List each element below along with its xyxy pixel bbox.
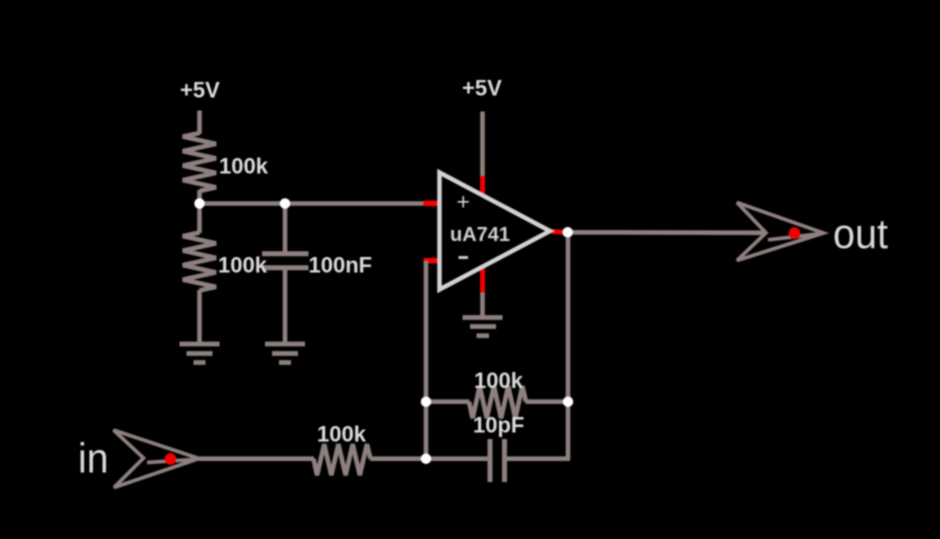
red stub inverting input bbox=[424, 258, 442, 264]
label in bbox=[78, 435, 109, 482]
label R3 100k bbox=[317, 421, 367, 446]
wire op-amp V- to ground bbox=[480, 293, 485, 318]
ground G1 bbox=[180, 344, 220, 363]
node feedback left bbox=[421, 396, 432, 407]
label +5V op-amp bbox=[462, 76, 502, 101]
label op-amp plus bbox=[457, 189, 470, 215]
ground G3 bbox=[463, 318, 503, 336]
red dot in bbox=[165, 453, 177, 465]
red stub output bbox=[552, 229, 565, 235]
label out bbox=[833, 210, 888, 257]
wire V+ rail to R1 top bbox=[197, 111, 202, 135]
label op-amp uA741 bbox=[450, 224, 510, 246]
svg-text:in: in bbox=[78, 435, 109, 482]
wire output node to out arrow bbox=[568, 230, 766, 235]
svg-text:100k: 100k bbox=[218, 252, 268, 277]
wire output node down to feedback bbox=[566, 232, 571, 458]
node feedback right bbox=[563, 396, 574, 407]
svg-text:100nF: 100nF bbox=[309, 252, 373, 277]
node input junction bbox=[421, 453, 432, 464]
resistor R3 100k (input) bbox=[314, 444, 427, 475]
wire bias node row bbox=[200, 201, 425, 206]
svg-text:100k: 100k bbox=[474, 368, 524, 393]
node bias left bbox=[194, 198, 205, 209]
node output bbox=[562, 227, 573, 238]
wire inverting input down to feedback bbox=[424, 261, 429, 459]
node bias cap bbox=[280, 198, 291, 209]
svg-text:out: out bbox=[833, 210, 888, 257]
capacitor C1 100nF bbox=[262, 204, 309, 344]
input arrow flag "in" bbox=[114, 430, 200, 488]
red dot out bbox=[789, 227, 801, 239]
svg-text:+5V: +5V bbox=[462, 76, 502, 101]
label C1 100nF bbox=[309, 252, 373, 277]
label R4 100k bbox=[474, 368, 524, 393]
red stub non-inverting input bbox=[424, 201, 442, 207]
ground G2 bbox=[265, 344, 305, 363]
red pin op-amp V- bbox=[480, 267, 485, 294]
svg-text:uA741: uA741 bbox=[450, 224, 510, 246]
resistor R1 100k (top bias) bbox=[183, 133, 216, 204]
label op-amp minus bbox=[459, 256, 469, 259]
label C2 10pF bbox=[473, 413, 524, 438]
label +5V left bbox=[180, 78, 220, 103]
wire C2 to output branch corner bbox=[507, 456, 571, 461]
svg-text:100k: 100k bbox=[317, 421, 367, 446]
resistor R2 100k (bottom bias) bbox=[183, 204, 216, 344]
resistor R4 100k (feedback) bbox=[426, 386, 568, 418]
wire V+ rail op-amp bbox=[480, 112, 485, 178]
svg-text:+5V: +5V bbox=[180, 78, 220, 103]
svg-text:+: + bbox=[457, 189, 470, 215]
label R2 100k bbox=[218, 252, 268, 277]
svg-text:10pF: 10pF bbox=[473, 413, 524, 438]
output arrow flag "out" bbox=[737, 203, 824, 261]
wire in arrow to R3 bbox=[199, 456, 314, 461]
capacitor C2 10pF bbox=[490, 439, 505, 482]
wire R3 node to C2 bbox=[426, 456, 488, 461]
red pin op-amp V+ bbox=[480, 176, 485, 197]
label R1 100k bbox=[219, 154, 269, 179]
op-amp U1 uA741 bbox=[440, 173, 551, 290]
svg-text:100k: 100k bbox=[219, 154, 269, 179]
